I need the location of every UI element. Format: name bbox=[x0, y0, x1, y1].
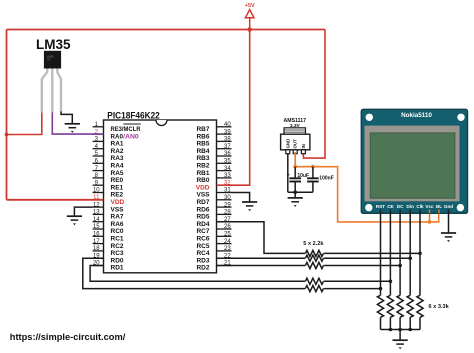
svg-text:29: 29 bbox=[224, 202, 231, 208]
pin 27 (right) stub+number bbox=[217, 217, 232, 223]
svg-text:RC0: RC0 bbox=[111, 228, 124, 235]
svg-text:Din: Din bbox=[406, 204, 414, 209]
node Vcc junction bbox=[428, 220, 432, 224]
pin 32 (right) stub+number bbox=[217, 180, 232, 186]
pin name RB7 (right) bbox=[196, 126, 209, 133]
svg-text:RE3/MCLR: RE3/MCLR bbox=[111, 126, 141, 133]
pin 5 (left) stub+number bbox=[93, 151, 104, 157]
svg-text:RD5: RD5 bbox=[196, 214, 209, 221]
svg-text:10: 10 bbox=[93, 188, 100, 194]
svg-text:RB1: RB1 bbox=[196, 170, 209, 177]
wire +5V drop to VDD pin 32 bbox=[217, 30, 250, 186]
ground (regulator) bbox=[288, 198, 303, 207]
display pin legs bbox=[381, 210, 449, 214]
labels Nokia5110 pins RST CE DC Din Clk Vcc BL Gnd bbox=[376, 204, 453, 209]
label Nokia5110 bbox=[401, 112, 432, 119]
svg-text:100nF: 100nF bbox=[319, 176, 333, 182]
svg-text:RC7: RC7 bbox=[196, 228, 209, 235]
svg-text:RB7: RB7 bbox=[196, 126, 209, 133]
svg-text:12: 12 bbox=[93, 202, 100, 208]
svg-text:RE0: RE0 bbox=[111, 177, 124, 184]
svg-text:RST: RST bbox=[376, 204, 385, 209]
pin name RB6 (right) bbox=[196, 133, 209, 140]
svg-text:RD0: RD0 bbox=[111, 257, 124, 264]
svg-text:18: 18 bbox=[93, 246, 100, 252]
svg-text:GND: GND bbox=[285, 139, 290, 149]
pin name RD1 (left) bbox=[111, 265, 124, 272]
pin name RE2 (left) bbox=[111, 192, 124, 199]
svg-text:RC6: RC6 bbox=[196, 236, 209, 243]
wire RD0 to RST (row E) bbox=[83, 258, 305, 288]
svg-text:RC3: RC3 bbox=[111, 250, 124, 257]
pin name VSS (right) bbox=[196, 192, 210, 199]
pin 19 (left) stub+number bbox=[93, 253, 104, 259]
svg-text:RE2: RE2 bbox=[111, 192, 124, 199]
node rail junction CE bbox=[389, 328, 393, 332]
pin 14 (left) stub+number bbox=[93, 217, 104, 223]
wire row E to RST bbox=[324, 288, 381, 290]
wire RD3 to Din (row B) bbox=[217, 257, 306, 259]
svg-text:RB0: RB0 bbox=[196, 177, 209, 184]
pin name RD0 (left) bbox=[111, 257, 124, 264]
sensor LM35 leads bbox=[42, 68, 61, 113]
svg-text:3.3V: 3.3V bbox=[290, 123, 301, 129]
capacitor C2 100nF bbox=[307, 167, 334, 193]
svg-text:RA1: RA1 bbox=[111, 141, 124, 148]
pin name VDD (left) bbox=[111, 199, 125, 206]
ground (Nokia) bbox=[441, 233, 456, 242]
svg-text:DZ: DZ bbox=[47, 58, 51, 62]
svg-text:RC1: RC1 bbox=[111, 236, 124, 243]
pin name RB4 (right) bbox=[196, 148, 209, 155]
wire Nokia RST down bbox=[380, 213, 382, 295]
wire row D to CE bbox=[324, 280, 391, 282]
wire +5V to VDD pin 11 bbox=[7, 199, 104, 201]
svg-text:6 x 3.3k: 6 x 3.3k bbox=[429, 304, 450, 310]
pin 20 (left) stub+number bbox=[93, 261, 104, 267]
wire AMS1117 OUT (orange) bbox=[294, 152, 296, 167]
node +5V rail junction bbox=[247, 27, 252, 32]
pin name RB5 (right) bbox=[196, 141, 209, 148]
svg-text:35: 35 bbox=[224, 159, 231, 165]
pin name RB3 (right) bbox=[196, 155, 209, 162]
node cap rail junction bbox=[293, 190, 297, 194]
pin 8 (left) stub+number bbox=[93, 173, 104, 179]
wire Nokia CE down bbox=[389, 213, 391, 295]
wire RD2 to DC (row C) bbox=[217, 265, 306, 267]
label 6 x 3.3k bbox=[429, 304, 450, 310]
node LM35 feed junction bbox=[5, 133, 9, 137]
wire RST resistor to rail bbox=[380, 317, 382, 329]
wire LM35 output (purple) bbox=[52, 113, 103, 135]
svg-text:Clk: Clk bbox=[416, 204, 424, 209]
regulator U2 AMS1117 package bbox=[281, 128, 310, 154]
display LCD1 Nokia5110 board bbox=[361, 109, 467, 213]
pin name RA5 (left) bbox=[111, 170, 124, 177]
svg-text:16: 16 bbox=[93, 232, 100, 238]
node RST junction bbox=[379, 287, 383, 291]
resistor R4 2.2k (row B) bbox=[305, 255, 323, 261]
pin 2 (left) stub+number bbox=[93, 129, 104, 135]
pin 21 (right) stub+number bbox=[217, 261, 232, 267]
svg-text:RB6: RB6 bbox=[196, 133, 209, 140]
pin 6 (left) stub+number bbox=[93, 159, 104, 165]
svg-text:17: 17 bbox=[93, 239, 100, 245]
svg-text:31: 31 bbox=[224, 188, 231, 194]
svg-text:33: 33 bbox=[224, 173, 231, 179]
pin 39 (right) stub+number bbox=[217, 129, 232, 135]
wire row B to Din bbox=[324, 257, 411, 259]
wire Nokia Din down bbox=[409, 213, 411, 295]
pin name RA0/AN0 bbox=[111, 133, 140, 140]
svg-text:34: 34 bbox=[224, 166, 231, 172]
svg-text:Vcc: Vcc bbox=[425, 204, 434, 209]
pin name RA2 (left) bbox=[111, 148, 124, 155]
pin 26 (right) stub+number bbox=[217, 224, 232, 230]
svg-text:RD2: RD2 bbox=[196, 265, 209, 272]
pin 10 (left) stub+number bbox=[93, 188, 104, 194]
label 5 x 2.2k bbox=[303, 241, 324, 247]
label AMS1117 3.3V bbox=[284, 118, 307, 129]
wire Din resistor to rail bbox=[409, 317, 411, 329]
resistor R8 3.3k (DC) bbox=[397, 295, 403, 317]
pin name RE1 (left) bbox=[111, 184, 124, 191]
wire LM35 VCC feed bbox=[7, 112, 42, 135]
pin 9 (left) stub+number bbox=[93, 180, 104, 186]
resistor R5 2.2k (row A) bbox=[305, 250, 323, 256]
pin name RA4 (left) bbox=[111, 163, 124, 170]
node rail junction Din bbox=[408, 328, 412, 332]
svg-text:30: 30 bbox=[224, 195, 231, 201]
svg-text:RB2: RB2 bbox=[196, 163, 209, 170]
svg-text:IN: IN bbox=[301, 144, 306, 148]
node OUT junction bbox=[293, 165, 297, 169]
svg-text:OUT: OUT bbox=[293, 139, 298, 149]
pin name RD3 (right) bbox=[196, 257, 209, 264]
svg-text:RD3: RD3 bbox=[196, 257, 209, 264]
svg-text:RA5: RA5 bbox=[111, 170, 124, 177]
wire VSS pin31 to ground bbox=[232, 193, 250, 203]
wire LM35 GND bbox=[61, 112, 72, 124]
wire RD4 to Clk (row A) bbox=[217, 222, 306, 254]
pin name RC6 (right) bbox=[196, 236, 209, 243]
svg-text:RC2: RC2 bbox=[111, 243, 124, 250]
svg-text:26: 26 bbox=[224, 224, 231, 230]
pin 37 (right) stub+number bbox=[217, 144, 232, 150]
wire row A to Clk bbox=[324, 252, 420, 254]
pin 17 (left) stub+number bbox=[93, 239, 104, 245]
pin 31 (right) stub+number bbox=[217, 188, 232, 194]
wire Nokia DC down bbox=[399, 213, 401, 295]
pin name RB1 (right) bbox=[196, 170, 209, 177]
svg-text:RC5: RC5 bbox=[196, 243, 209, 250]
pin 29 (right) stub+number bbox=[217, 202, 232, 208]
svg-text:DC: DC bbox=[397, 204, 404, 209]
pin name RD5 (right) bbox=[196, 214, 209, 221]
svg-text:RA2: RA2 bbox=[111, 148, 124, 155]
svg-text:RA6: RA6 bbox=[111, 221, 124, 228]
wire Vcc stub (orange) bbox=[429, 214, 431, 222]
ground (LM35) bbox=[65, 124, 80, 133]
pin 23 (right) stub+number bbox=[217, 246, 232, 252]
label simple-circuit.com bbox=[10, 332, 126, 343]
resistor R10 3.3k (Clk) bbox=[417, 295, 423, 317]
pin 30 (right) stub+number bbox=[217, 195, 232, 201]
wire +5V to regulator IN bbox=[303, 30, 325, 159]
pin 34 (right) stub+number bbox=[217, 166, 232, 172]
svg-text:23: 23 bbox=[224, 246, 231, 252]
svg-text:VDD: VDD bbox=[111, 199, 125, 206]
svg-text:39: 39 bbox=[224, 129, 231, 135]
label LM35 bbox=[36, 37, 71, 52]
node CE junction bbox=[389, 280, 393, 284]
pin 7 (left) stub+number bbox=[93, 166, 104, 172]
wire AMS1117 GND bbox=[287, 154, 289, 193]
svg-text:+5V: +5V bbox=[245, 3, 255, 9]
svg-text:13: 13 bbox=[93, 210, 100, 216]
IC U1 PIC18F46K22 body bbox=[104, 120, 217, 273]
svg-text:38: 38 bbox=[224, 137, 231, 143]
svg-text:RA7: RA7 bbox=[111, 214, 124, 221]
node rail junction DC bbox=[398, 328, 402, 332]
svg-text:25: 25 bbox=[224, 232, 231, 238]
pin 16 (left) stub+number bbox=[93, 232, 104, 238]
pin 38 (right) stub+number bbox=[217, 137, 232, 143]
pin name RC7 (right) bbox=[196, 228, 209, 235]
pin name RD6 (right) bbox=[196, 206, 209, 213]
svg-text:36: 36 bbox=[224, 151, 231, 157]
svg-text:37: 37 bbox=[224, 144, 231, 150]
wire DC resistor to rail bbox=[399, 317, 401, 329]
pin name RC0 (left) bbox=[111, 228, 124, 235]
pin 18 (left) stub+number bbox=[93, 246, 104, 252]
pin name VDD (right) bbox=[196, 184, 210, 191]
pin 15 (left) stub+number bbox=[93, 224, 104, 230]
node Clk junction bbox=[418, 252, 422, 256]
pin name RC5 (right) bbox=[196, 243, 209, 250]
ground (VSS right) bbox=[242, 202, 257, 211]
svg-text:VDD: VDD bbox=[196, 184, 210, 191]
node 100nF junction bbox=[311, 165, 315, 169]
svg-text:RA0: RA0 bbox=[111, 133, 124, 140]
wire row C to DC bbox=[324, 265, 401, 267]
svg-text:15: 15 bbox=[93, 224, 100, 230]
wire Clk resistor to rail bbox=[419, 317, 421, 329]
resistor R3 2.2k (row C) bbox=[305, 262, 323, 268]
pin name VSS (left) bbox=[111, 206, 125, 213]
svg-text:PIC18F46K22: PIC18F46K22 bbox=[107, 110, 160, 120]
pin 36 (right) stub+number bbox=[217, 151, 232, 157]
wire capacitor ground rail bbox=[288, 191, 313, 193]
svg-text:32: 32 bbox=[224, 180, 231, 186]
resistor R7 3.3k (CE) bbox=[387, 295, 393, 317]
svg-text:https://simple-circuit.com/: https://simple-circuit.com/ bbox=[10, 332, 126, 343]
node Din junction bbox=[408, 256, 412, 260]
pin name RC3 (left) bbox=[111, 250, 124, 257]
pin 24 (right) stub+number bbox=[217, 239, 232, 245]
pin name RA3 (left) bbox=[111, 155, 124, 162]
svg-text:/AN0: /AN0 bbox=[123, 133, 139, 140]
resistor R6 3.3k (RST) bbox=[377, 295, 383, 317]
pin name RC1 (left) bbox=[111, 236, 124, 243]
resistor R9 3.3k (Din) bbox=[407, 295, 413, 317]
pin 40 (right) stub+number bbox=[217, 122, 232, 128]
ground (resistor rail) bbox=[393, 340, 408, 349]
pin 3 (left) stub+number bbox=[93, 137, 104, 143]
pin name RA6 (left) bbox=[111, 221, 124, 228]
svg-text:RA3: RA3 bbox=[111, 155, 124, 162]
pin 4 (left) stub+number bbox=[93, 144, 104, 150]
svg-text:CE: CE bbox=[387, 204, 393, 209]
pin name RB2 (right) bbox=[196, 163, 209, 170]
svg-text:RD7: RD7 bbox=[196, 199, 209, 206]
svg-text:VSS: VSS bbox=[196, 192, 210, 199]
svg-text:RB3: RB3 bbox=[196, 155, 209, 162]
svg-text:Nokia5110: Nokia5110 bbox=[401, 112, 432, 119]
wire +5V rail (top) bbox=[7, 29, 326, 31]
pin 13 (left) stub+number bbox=[93, 210, 104, 216]
pin 28 (right) stub+number bbox=[217, 210, 232, 216]
power +5V symbol bbox=[245, 3, 255, 30]
pin name RA1 (left) bbox=[111, 141, 124, 148]
wire +5V left border drop bbox=[6, 30, 8, 200]
node DC junction bbox=[398, 264, 402, 268]
svg-text:LM35: LM35 bbox=[36, 37, 71, 52]
pin 11 (left) stub+number bbox=[93, 195, 104, 201]
svg-text:BL: BL bbox=[436, 204, 442, 209]
svg-text:RD1: RD1 bbox=[111, 265, 124, 272]
pin name RC2 (left) bbox=[111, 243, 124, 250]
pin 33 (right) stub+number bbox=[217, 173, 232, 179]
pin 22 (right) stub+number bbox=[217, 253, 232, 259]
pin name RB0 (right) bbox=[196, 177, 209, 184]
wire Nokia Gnd to ground bbox=[448, 213, 450, 233]
wire resistor ground rail bbox=[381, 329, 421, 331]
svg-text:RD6: RD6 bbox=[196, 206, 209, 213]
wire CE resistor to rail bbox=[389, 317, 391, 329]
pin name RE0 (left) bbox=[111, 177, 124, 184]
sensor LM35 body bbox=[44, 51, 61, 69]
svg-text:5 x 2.2k: 5 x 2.2k bbox=[303, 241, 324, 247]
svg-text:RB4: RB4 bbox=[196, 148, 209, 155]
svg-text:RE1: RE1 bbox=[111, 184, 124, 191]
svg-text:11: 11 bbox=[93, 195, 100, 201]
wire Nokia Clk down bbox=[419, 213, 421, 295]
pin 25 (right) stub+number bbox=[217, 232, 232, 238]
pin name RC4 (right) bbox=[196, 250, 209, 257]
svg-text:24: 24 bbox=[224, 239, 231, 245]
svg-text:40: 40 bbox=[224, 122, 231, 128]
pin name RA7 (left) bbox=[111, 214, 124, 221]
label PIC18F46K22 bbox=[107, 110, 160, 120]
pin 35 (right) stub+number bbox=[217, 159, 232, 165]
svg-text:RA4: RA4 bbox=[111, 163, 124, 170]
pin name RD4 (right) bbox=[196, 221, 209, 228]
wire to regulator ground bbox=[294, 192, 296, 198]
wire 3.3V rail (orange) bbox=[295, 167, 439, 222]
svg-text:RD4: RD4 bbox=[196, 221, 209, 228]
ground (VSS left) bbox=[67, 216, 82, 225]
svg-text:RC4: RC4 bbox=[196, 250, 209, 257]
pin 12 (left) stub+number bbox=[93, 202, 104, 208]
pin 1 (left) stub+number bbox=[93, 122, 104, 128]
svg-text:14: 14 bbox=[93, 217, 100, 223]
svg-text:RB5: RB5 bbox=[196, 141, 209, 148]
pin name RD7 (right) bbox=[196, 199, 209, 206]
pin name RE3/MCLR with overline bbox=[111, 124, 141, 133]
wire VSS pin12 to ground bbox=[74, 207, 92, 216]
wire rail to ground bbox=[399, 330, 401, 341]
resistor R1 2.2k (row E) bbox=[305, 286, 323, 292]
pin name RD2 (right) bbox=[196, 265, 209, 272]
svg-text:28: 28 bbox=[224, 210, 231, 216]
wire RD1 to CE (row D) bbox=[90, 266, 305, 282]
svg-text:Gnd: Gnd bbox=[444, 204, 453, 209]
svg-text:VSS: VSS bbox=[111, 206, 125, 213]
resistor R2 2.2k (row D) bbox=[305, 278, 323, 284]
capacitor C1 10uF bbox=[287, 167, 309, 193]
